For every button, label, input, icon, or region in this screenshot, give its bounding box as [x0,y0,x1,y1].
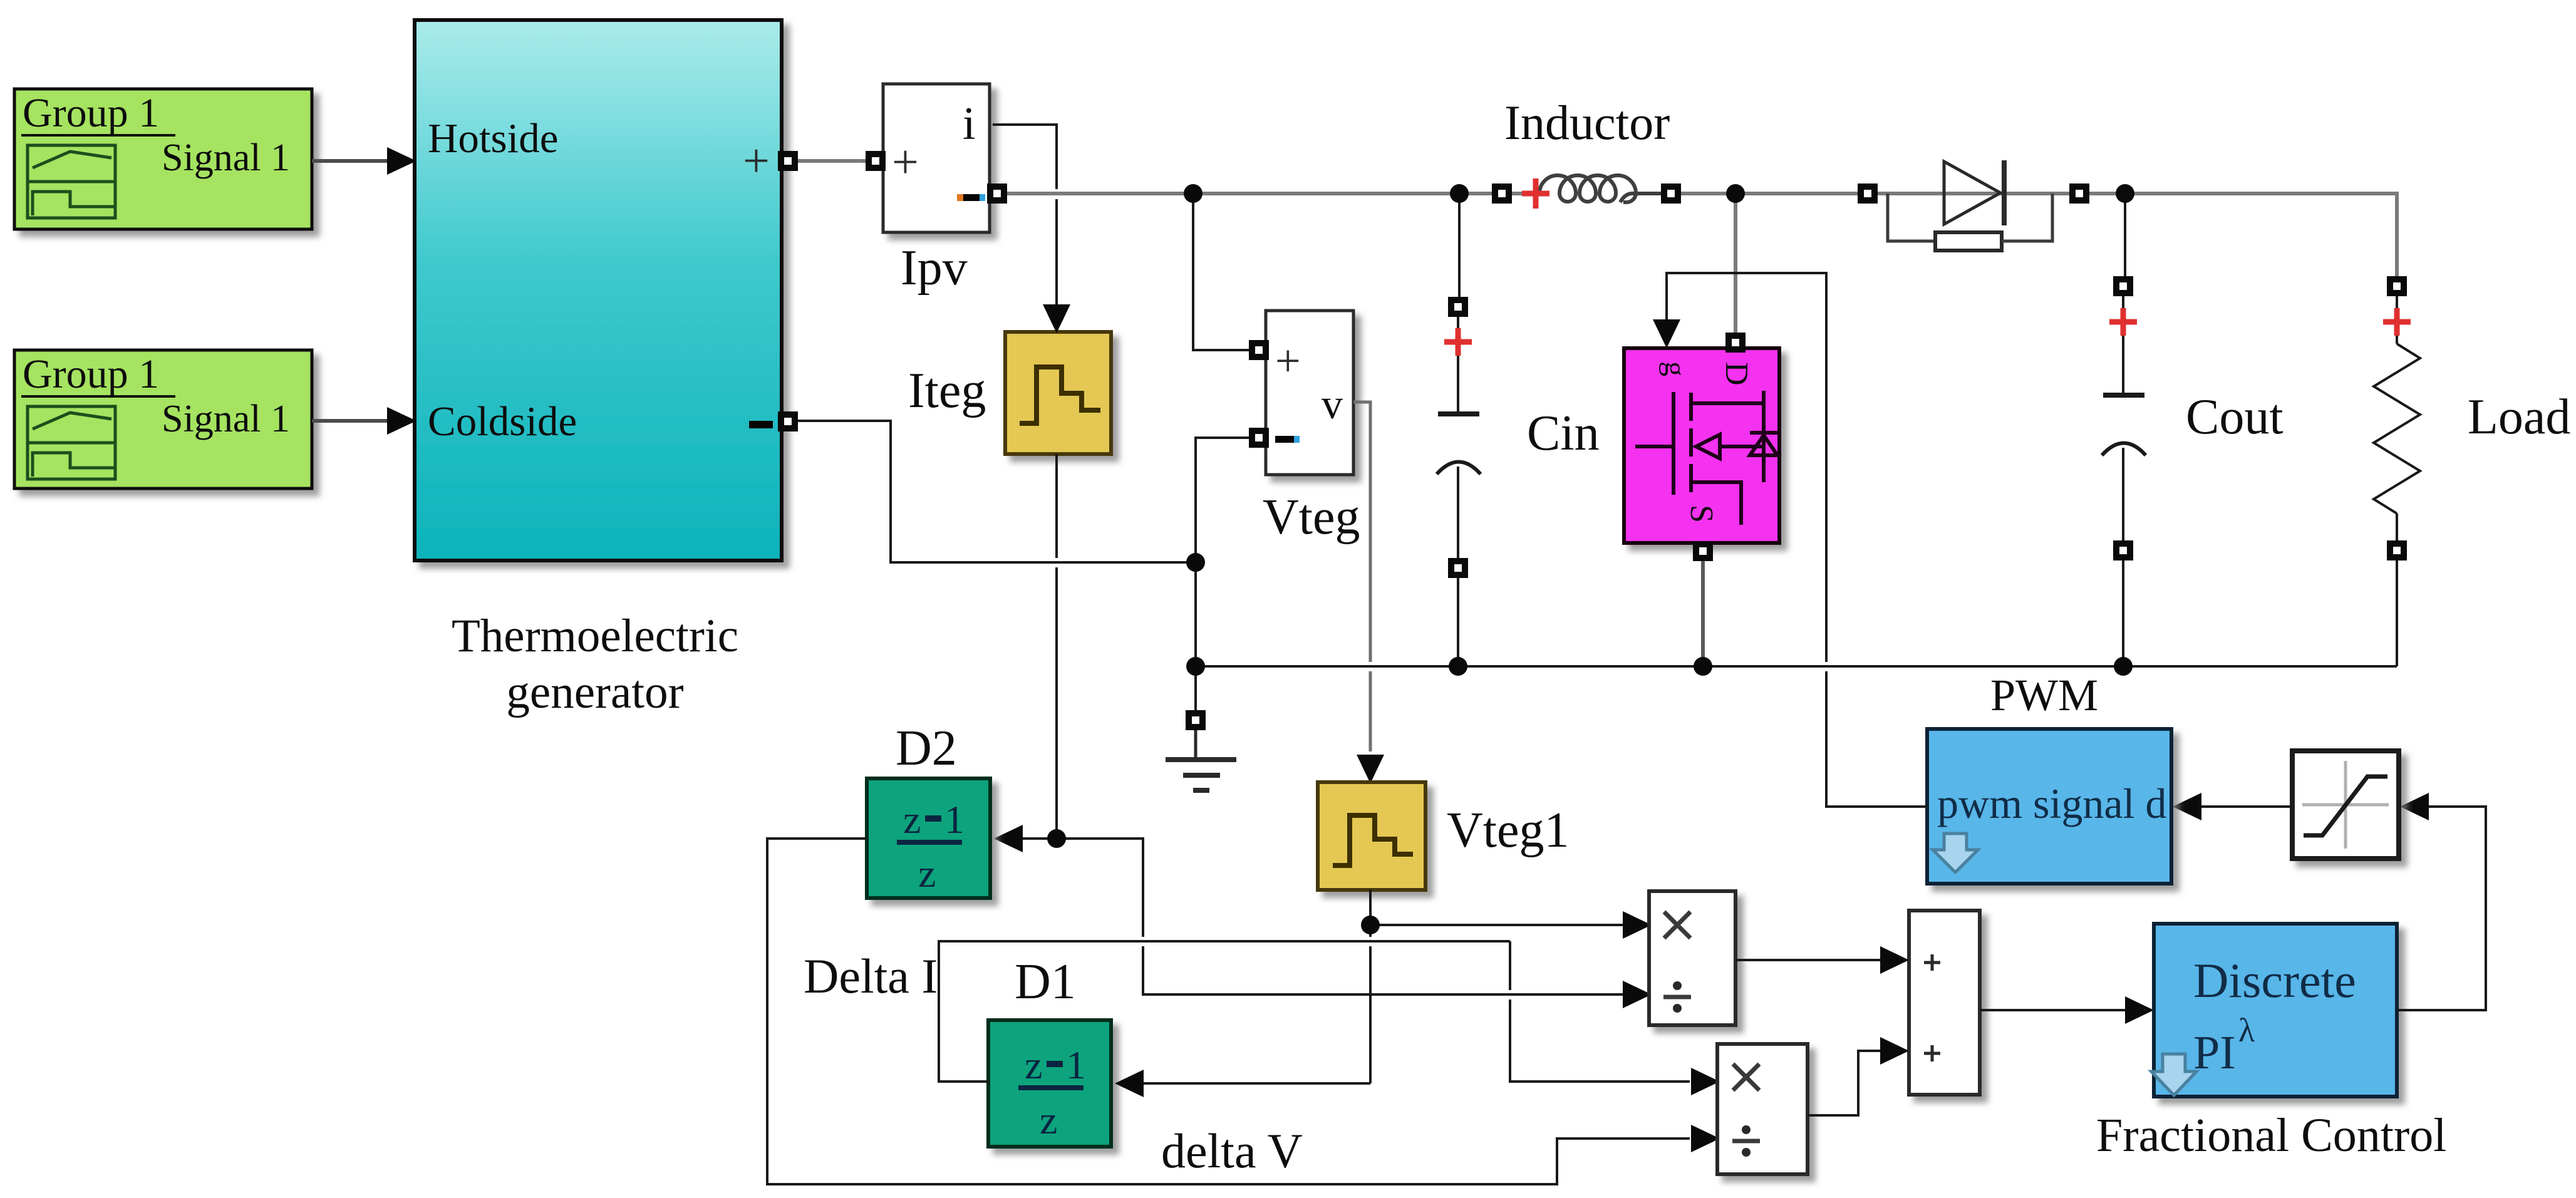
port Load top [2387,276,2407,296]
port diode right [2069,183,2089,204]
svg-text:PI: PI [2193,1026,2236,1079]
wire Discrete PI out to saturation [2397,807,2486,1010]
svg-text:D: D [1719,362,1754,386]
svg-text:Signal 1: Signal 1 [162,137,290,179]
svg-text:z: z [1025,1043,1042,1087]
svg-text:Delta I: Delta I [804,949,938,1003]
svg-text:PWM: PWM [1990,670,2098,720]
wire Vteg1 down to junction and mult1 x [1142,890,1624,1083]
port diode left [1858,183,1878,204]
wire mosfet source to rail [1701,560,1705,666]
port Vteg - input [1249,428,1269,448]
svg-text:z: z [918,851,936,896]
svg-text:delta V: delta V [1161,1123,1303,1178]
junction node Cout tap [2116,184,2134,203]
port Ipv - output [987,183,1007,204]
arrowhead into mosfet gate [1653,319,1680,348]
junction node Vteg+ tap [1184,184,1203,203]
wire PWM out to mosfet gate [1667,273,1927,807]
svg-text:S: S [1684,505,1719,523]
wire sum out to Discrete PI [1980,1009,2125,1011]
port mosfet drain [1725,333,1746,353]
junction node mosfet source rail [1694,657,1712,676]
arrowhead into mult1 x [1623,911,1652,939]
port inductor left [1492,183,1512,204]
svg-text:Vteg1: Vteg1 [1447,803,1570,858]
port TEG + output [778,151,798,171]
svg-text:Cin: Cin [1527,406,1600,461]
arrowhead into Coldside [387,407,416,435]
svg-text:v: v [1322,380,1343,428]
svg-text:i: i [963,98,976,150]
wire green1 to TEG [312,159,390,163]
svg-text:generator: generator [506,666,683,718]
wire TEG- coldside [795,421,1188,562]
port Cout top [2113,276,2133,296]
wire junctionA to Vteg+ [1193,194,1251,350]
svg-text:z: z [903,797,921,842]
port Load bottom [2387,540,2407,560]
current sensor Ipv [883,84,990,232]
junction node Iteg signal split [1047,829,1066,848]
junction node mosfet drain tap [1726,184,1745,203]
inductor red plus [1522,178,1549,209]
wire Iteg down to junction [1055,454,1058,839]
svg-text:Signal 1: Signal 1 [162,398,290,440]
product block mult1 [1649,891,1735,1025]
svg-text:Iteg: Iteg [908,363,986,418]
resistor Load [2374,296,2420,666]
svg-text:+: + [1275,336,1301,386]
signal builder block Group1/Signal1 (bottom) [14,350,312,488]
port Cin top [1448,297,1468,317]
svg-text:pwm signal d: pwm signal d [1937,780,2166,827]
port inductor right [1661,183,1681,204]
wire D1 output loop to mult2 x [939,941,1690,1082]
svg-text:z: z [1040,1098,1057,1142]
junction node Cout bottom rail [2114,657,2133,676]
svg-text:λ: λ [2238,1011,2255,1049]
capacitor Cin [1437,194,1481,666]
port Cin bottom [1448,558,1468,578]
svg-text:Thermoelectric: Thermoelectric [452,610,738,662]
svg-text:Hotside: Hotside [428,115,558,162]
port ground [1186,710,1206,730]
wire TEG+ to Ipv [796,159,868,163]
wire D2 output loop (Delta I feedback) [767,839,1690,1184]
mosfet block [1624,348,1779,543]
arrowhead into mult1 divide [1623,981,1652,1008]
svg-text:+: + [743,135,770,187]
svg-text:D2: D2 [896,721,957,776]
svg-text:Vteg: Vteg [1263,490,1360,545]
junction node Cin bottom rail [1449,657,1467,676]
port Vteg + input [1249,340,1269,360]
wire saturation out to PWM [2200,805,2292,808]
arrowhead into Hotside [387,147,416,175]
wire Delta I to mult1 divide [1057,839,1624,994]
svg-text:Fractional Control: Fractional Control [2096,1109,2446,1162]
arrowhead into D2 [994,825,1023,852]
diode D [1944,160,2004,225]
port Cout bottom [2113,540,2133,560]
wire Vteg- down [1196,438,1251,713]
port Ipv + input [866,151,886,171]
svg-text:Coldside: Coldside [428,398,577,445]
arrowhead sum input2 [1880,1037,1909,1065]
junction node coldside/Vteg- [1186,553,1205,572]
junction node Vteg1 signal split [1361,916,1380,934]
ground symbol [1166,729,1236,790]
scope Iteg [1005,332,1111,454]
inductor coil [1511,175,1662,202]
saturation block [2292,751,2399,859]
derivative block D2 [867,778,990,898]
svg-text:Group 1: Group 1 [23,90,159,136]
svg-text:Group 1: Group 1 [23,351,159,397]
wire mult1 out to sum [1735,959,1881,961]
voltage sensor Vteg [1266,311,1353,475]
arrowhead into Vteg1 [1357,755,1384,783]
wire green2 to TEG [312,419,390,423]
sum block [1909,911,1980,1095]
svg-text:Inductor: Inductor [1504,95,1670,150]
capacitor Cout [2102,194,2146,666]
arrowhead into mult2 divide [1691,1125,1720,1152]
product block mult2 [1717,1044,1808,1174]
thermoelectric generator block [415,20,782,560]
svg-text:Load: Load [2468,390,2570,445]
main top wire [1000,192,2397,277]
arrowhead into mult2 x [1691,1068,1720,1095]
arrowhead into PWM [2173,793,2201,820]
bottom rail wire [1196,665,2397,668]
wire i output to Iteg [993,125,1057,307]
svg-text:+: + [892,136,919,188]
svg-text:D1: D1 [1015,954,1076,1010]
block PWM pwm signal d [1927,729,2171,884]
wire mult2 out to sum [1808,1051,1881,1115]
svg-text:g: g [1658,361,1692,376]
signal builder block Group1/Signal1 (top) [14,89,312,229]
arrowhead into D1 [1115,1070,1144,1097]
svg-text:Ipv: Ipv [901,240,968,296]
arrowhead into Iteg [1043,304,1070,333]
port mosfet source [1693,541,1713,561]
arrowhead into Discrete PI [2125,996,2154,1024]
svg-text:Cout: Cout [2186,390,2284,445]
svg-text:Discrete: Discrete [2193,953,2356,1008]
wire Vteg v output to Vteg1 [1353,402,1370,751]
derivative block D1 [988,1020,1111,1147]
junction node ground rail left [1186,657,1205,676]
block Discrete PI [2151,924,2397,1097]
arrowhead into saturation [2400,793,2429,820]
scope Vteg1 [1318,782,1425,890]
wire drain from main [1734,194,1737,334]
port TEG - output [778,411,798,431]
junction node Cin tap [1450,184,1469,203]
label Thermoelectric generator [452,610,738,718]
svg-text:1: 1 [944,797,965,842]
svg-text:1: 1 [1066,1043,1086,1087]
arrowhead sum input1 [1880,946,1909,974]
wire junction to D2 input [1020,837,1057,840]
diode parallel resistor [1888,194,2052,250]
